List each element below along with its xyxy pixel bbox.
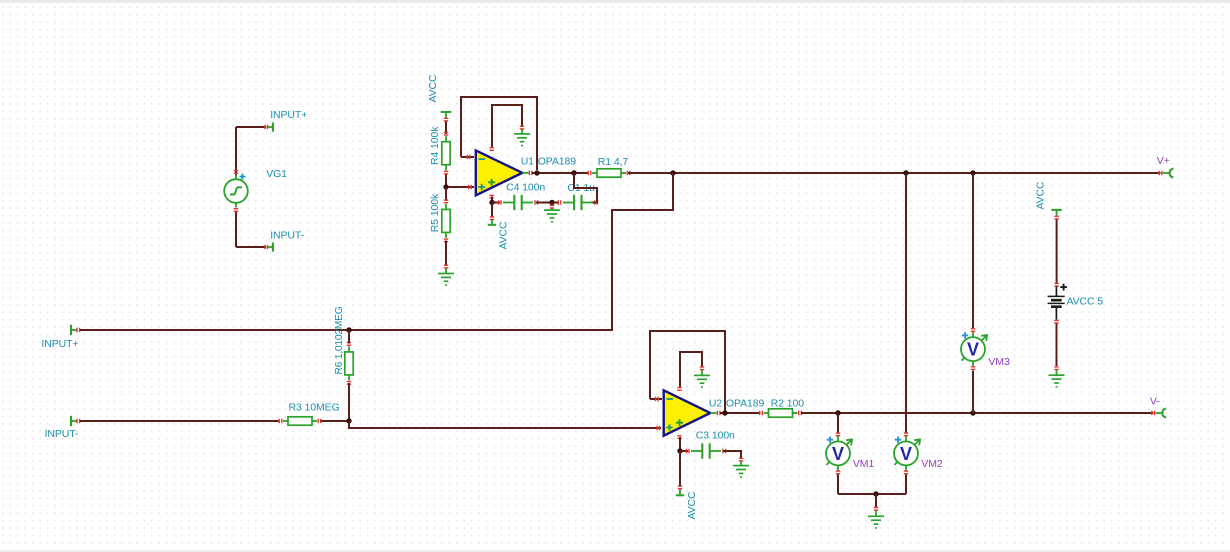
wire node B to C4 bbox=[492, 202, 500, 204]
node D junction R3/R6/U2+ bbox=[346, 418, 351, 423]
resistor R5 100k bbox=[442, 199, 450, 242]
node E junction below U2 bbox=[677, 448, 682, 453]
svg-text:V: V bbox=[900, 444, 912, 464]
label AVCC below U1 bbox=[498, 221, 510, 250]
AVCC supply terminal below U2 bbox=[676, 494, 685, 496]
wire battery to ground bbox=[1054, 324, 1058, 376]
svg-text:R3 10MEG: R3 10MEG bbox=[289, 402, 340, 414]
wire VM1 bottom bbox=[837, 475, 839, 495]
wire node A to U1 plus input bbox=[448, 185, 474, 189]
terminal INPUT+ (left) bbox=[71, 325, 80, 335]
wire U1 output to R1 bbox=[532, 172, 588, 174]
wire node D jog to U2 plus input bbox=[349, 421, 661, 430]
node B junction below U1 bbox=[489, 200, 494, 205]
battery AVCC 5 bbox=[1048, 284, 1067, 324]
svg-text:R5 100k: R5 100k bbox=[429, 193, 441, 232]
svg-text:AVCC 5: AVCC 5 bbox=[1067, 296, 1104, 308]
terminal V+ bbox=[1159, 168, 1174, 177]
label R5 100k bbox=[429, 193, 441, 232]
wire VG1 top from INPUT+ terminal bbox=[236, 127, 266, 176]
ground below R5 bbox=[438, 274, 454, 286]
svg-text:OPA189: OPA189 bbox=[726, 397, 765, 409]
wire VM2 bottom bbox=[905, 475, 907, 495]
label INPUT- (left) bbox=[45, 428, 79, 440]
ground below C3 bbox=[733, 466, 749, 478]
wire C4 to node C bbox=[536, 202, 552, 204]
svg-text:INPUT+: INPUT+ bbox=[270, 109, 307, 121]
label C3 100n bbox=[696, 430, 735, 442]
wire U2 bottom AVCC stub bbox=[678, 451, 682, 495]
node V+ / VM2 tap bbox=[903, 170, 908, 175]
wire node E to C3 bbox=[680, 450, 688, 452]
label INPUT+ (top) bbox=[270, 109, 307, 121]
terminal INPUT+ (top) bbox=[264, 122, 273, 131]
ground U1 top loop bbox=[514, 134, 530, 146]
terminal V- bbox=[1151, 408, 1166, 417]
svg-text:VG1: VG1 bbox=[266, 168, 287, 180]
label R2 100 bbox=[771, 398, 805, 410]
capacitor C4 100n bbox=[498, 195, 539, 210]
ground below battery bbox=[1049, 375, 1065, 387]
node C junction C4/C1/ground bbox=[549, 200, 554, 205]
wire VM3 bottom to V- rail bbox=[972, 371, 974, 414]
svg-text:VM2: VM2 bbox=[921, 458, 943, 470]
svg-text:INPUT+: INPUT+ bbox=[41, 338, 78, 350]
svg-text:INPUT-: INPUT- bbox=[270, 230, 304, 242]
svg-text:AVCC: AVCC bbox=[686, 491, 698, 520]
svg-text:AVCC: AVCC bbox=[1035, 181, 1047, 210]
wire U2 bottom pin to node E bbox=[679, 437, 681, 451]
wire U2 outer feedback loop bbox=[650, 331, 725, 411]
ground U2 top loop bbox=[694, 375, 710, 387]
label U2 OPA189 bbox=[709, 397, 765, 409]
wire node C ground stub bbox=[550, 203, 554, 211]
ground below VM1/VM2 bbox=[868, 516, 884, 528]
voltmeter VM1 bbox=[826, 432, 852, 474]
label C4 100n bbox=[506, 181, 545, 193]
capacitor C3 100n bbox=[686, 443, 727, 458]
wire INPUT- rail to R3 bbox=[80, 420, 279, 422]
svg-text:C3 100n: C3 100n bbox=[696, 430, 735, 442]
svg-text:V-: V- bbox=[1150, 396, 1160, 408]
wire R2 to V- rail bbox=[801, 412, 1153, 414]
op-amp U2 OPA189 bbox=[664, 387, 721, 439]
svg-text:V: V bbox=[967, 340, 979, 360]
resistor R4 100k bbox=[442, 132, 450, 175]
wire U2 inner loop to ground bbox=[680, 352, 704, 388]
wire VG1 bottom to INPUT- terminal bbox=[236, 212, 266, 247]
label U1 OPA189 bbox=[521, 155, 577, 167]
label C1 1u bbox=[567, 182, 595, 194]
svg-text:U2: U2 bbox=[709, 397, 722, 409]
wire VM1 top from V- rail bbox=[837, 413, 839, 433]
label AVCC above battery bbox=[1035, 181, 1047, 210]
node V+ / VM3 tap bbox=[970, 170, 975, 175]
node V- / VM1 tap bbox=[835, 410, 840, 415]
svg-text:R2 100: R2 100 bbox=[771, 398, 805, 410]
node C1 tap junction bbox=[571, 170, 576, 175]
wire VM bottom rail bbox=[838, 493, 906, 495]
svg-text:R4 100k: R4 100k bbox=[429, 126, 441, 165]
label R3 10MEG bbox=[289, 402, 340, 414]
AVCC supply terminal above battery bbox=[1051, 210, 1062, 220]
node V+ / feed to lower stage bbox=[670, 170, 675, 175]
wire VM3 top from V+ rail bbox=[972, 173, 974, 328]
label VM2 bbox=[921, 458, 943, 470]
capacitor C1 1u bbox=[558, 195, 599, 210]
wire V+ node to INPUT+ rail jog bbox=[610, 173, 673, 330]
label R6 1,0102MEG bbox=[334, 306, 345, 374]
resistor R1 4,7 bbox=[588, 169, 631, 177]
svg-text:VM1: VM1 bbox=[853, 458, 875, 470]
label VG1 bbox=[266, 168, 287, 180]
wire U2 minus input bbox=[650, 397, 662, 401]
wire R1 to V+ rail bbox=[628, 172, 1161, 174]
resistor R6 1,0102MEG bbox=[345, 330, 353, 421]
wire R3 to node D bbox=[321, 420, 350, 422]
svg-text:OPA189: OPA189 bbox=[538, 155, 577, 167]
voltmeter VM3 bbox=[961, 328, 987, 370]
node U2 output junction bbox=[722, 410, 727, 415]
wire INPUT+ rail bbox=[80, 329, 612, 331]
node A junction R4/R5/U1+ bbox=[443, 184, 448, 189]
label VM1 bbox=[853, 458, 875, 470]
AVCC supply terminal below U1 bbox=[488, 224, 497, 226]
label VM3 bbox=[988, 356, 1010, 368]
wire R5 to ground bbox=[444, 241, 448, 274]
wire VM2 column from V+ rail bbox=[905, 173, 907, 433]
wire node C to C1 bbox=[554, 202, 559, 204]
terminal INPUT- (left) bbox=[71, 416, 80, 426]
node INPUT+ / R6 junction bbox=[346, 327, 351, 332]
voltage generator VG1 bbox=[224, 170, 248, 212]
label R1 4,7 bbox=[598, 156, 629, 168]
node VM ground junction bbox=[873, 491, 878, 496]
wire AVCC to R4 bbox=[445, 122, 447, 135]
wire AVCC terminal to battery bbox=[1054, 220, 1058, 287]
label AVCC 5 bbox=[1067, 296, 1104, 308]
label AVCC below U2 bbox=[686, 491, 698, 520]
label R4 100k bbox=[429, 126, 441, 165]
node U1 output / feedback junction bbox=[534, 170, 539, 175]
wire U1 minus input bbox=[461, 155, 474, 159]
label INPUT- (top block) bbox=[270, 230, 304, 242]
wire U1 inner loop to ground bbox=[492, 105, 524, 148]
svg-text:U1: U1 bbox=[521, 155, 534, 167]
wire C3 right hook to ground bbox=[723, 451, 743, 466]
wire U1 bottom pin to node B bbox=[491, 197, 493, 203]
svg-text:C4 100n: C4 100n bbox=[506, 181, 545, 193]
label V+ bbox=[1157, 155, 1170, 167]
ground at node C bbox=[544, 210, 560, 222]
svg-text:AVCC: AVCC bbox=[427, 74, 439, 103]
svg-text:INPUT-: INPUT- bbox=[45, 428, 79, 440]
svg-text:V+: V+ bbox=[1157, 155, 1170, 167]
svg-text:VM3: VM3 bbox=[988, 356, 1010, 368]
voltmeter VM2 bbox=[894, 432, 920, 474]
wire node A to R5 bbox=[445, 187, 447, 201]
resistor R3 10MEG bbox=[279, 417, 322, 425]
AVCC supply terminal above R4 bbox=[441, 112, 452, 122]
svg-text:R1 4,7: R1 4,7 bbox=[598, 156, 629, 168]
svg-text:V: V bbox=[832, 444, 844, 464]
resistor R2 100 bbox=[759, 409, 802, 417]
label V- bbox=[1150, 396, 1160, 408]
terminal INPUT- (top block) bbox=[264, 242, 273, 251]
label AVCC above R4 bbox=[427, 74, 439, 103]
wire U2 output to R2 bbox=[720, 412, 761, 414]
wire U1 outer feedback loop bbox=[461, 97, 537, 170]
wire C1 right plate hook to output node bbox=[574, 173, 597, 203]
svg-text:AVCC: AVCC bbox=[498, 221, 510, 250]
op-amp U1 OPA189 bbox=[476, 147, 533, 199]
wire R4 to node A bbox=[445, 175, 447, 188]
svg-text:R6 1,0102MEG: R6 1,0102MEG bbox=[334, 306, 345, 374]
node V- / VM3 bottom tap bbox=[970, 410, 975, 415]
wire U1 bottom AVCC stub bbox=[490, 203, 494, 225]
wire VM ground stub bbox=[874, 494, 878, 516]
label INPUT+ (left) bbox=[41, 338, 78, 350]
